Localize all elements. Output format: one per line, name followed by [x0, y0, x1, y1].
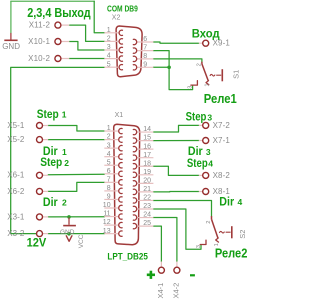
label S1	[231, 70, 240, 79]
label X1	[115, 112, 124, 119]
svg-text:2: 2	[62, 198, 67, 208]
connector pin X6-2	[7, 187, 48, 196]
svg-text:8: 8	[107, 185, 111, 192]
svg-text:Реле2: Реле2	[215, 247, 248, 261]
svg-text:12V: 12V	[27, 238, 47, 250]
svg-text:1: 1	[62, 147, 67, 157]
pin label 1 S1	[204, 83, 210, 86]
svg-text:4: 4	[107, 53, 111, 60]
pin label 3 S2	[196, 245, 202, 248]
pin label 3 S1	[187, 86, 193, 89]
pin label 2 S2	[206, 221, 212, 224]
svg-text:2: 2	[197, 63, 203, 66]
svg-text:GND: GND	[60, 229, 75, 236]
label Step 3	[186, 109, 213, 123]
node junction VCC	[67, 232, 71, 236]
svg-text:5: 5	[107, 159, 111, 166]
svg-text:X7-2: X7-2	[213, 121, 231, 130]
svg-text:3: 3	[107, 44, 111, 51]
switch S1 actuator tilde	[210, 74, 215, 76]
connector pin X7-2	[199, 121, 231, 130]
svg-text:X10-1: X10-1	[28, 37, 50, 46]
switch S2 arm	[212, 219, 219, 238]
power VCC label	[78, 234, 85, 248]
svg-text:Step: Step	[37, 107, 59, 121]
label Реле2	[215, 247, 248, 261]
svg-text:19: 19	[143, 169, 151, 176]
svg-text:X5-1: X5-1	[7, 121, 25, 130]
connector pin X5-1	[7, 121, 48, 130]
svg-text:3: 3	[196, 245, 202, 248]
svg-text:3: 3	[187, 86, 193, 89]
label S2	[238, 230, 247, 239]
connector pin X11-2	[29, 21, 70, 30]
node junction pins7-9	[167, 66, 171, 70]
wire GND net top	[11, 0, 94, 2]
ground GND pin	[10, 33, 12, 40]
svg-text:X10-2: X10-2	[28, 54, 50, 63]
svg-text:X6-2: X6-2	[7, 187, 25, 196]
svg-text:X8-2: X8-2	[213, 171, 231, 180]
ground GND2 bar	[63, 225, 76, 227]
svg-text:5: 5	[107, 61, 111, 68]
minus symbol	[190, 274, 195, 276]
wire X1 pin 21 to X8-1	[153, 191, 198, 193]
label Dir 1	[43, 144, 67, 158]
svg-text:X6-1: X6-1	[7, 171, 25, 180]
svg-text:LPT_DB25: LPT_DB25	[107, 252, 148, 262]
svg-text:21: 21	[143, 186, 151, 193]
wire X5-2 to X1 pin 2	[48, 139, 104, 141]
wire X10-2 to X2 pin 4	[69, 58, 104, 60]
svg-text:6: 6	[143, 36, 147, 43]
wire X11-2 to X2 pin 2	[69, 25, 104, 41]
svg-text:X4-1: X4-1	[156, 283, 165, 299]
svg-text:2: 2	[107, 134, 111, 141]
pin numbers X2 6-9	[143, 36, 147, 68]
label Dir 2	[43, 195, 67, 209]
svg-text:Dir: Dir	[43, 195, 58, 209]
connector pin X8-1	[199, 187, 231, 196]
svg-text:S2: S2	[238, 230, 247, 239]
switch S2 pin3 hook	[200, 240, 206, 244]
svg-text:X11-2: X11-2	[29, 21, 51, 30]
wire X3-2 to X1 pin 13	[48, 233, 104, 235]
wire X5-1 to X1 pin 1	[48, 126, 104, 132]
svg-text:Step: Step	[186, 109, 207, 123]
svg-text:14: 14	[143, 126, 151, 133]
label X2	[112, 15, 121, 22]
svg-text:Step: Step	[187, 156, 208, 170]
connector pin X4-2	[172, 262, 181, 299]
svg-text:1: 1	[107, 125, 111, 132]
svg-text:7: 7	[143, 45, 147, 52]
wire X1 pin 22 to relay2	[153, 200, 211, 216]
svg-text:8: 8	[143, 53, 147, 60]
svg-text:S1: S1	[231, 70, 240, 79]
svg-text:X2: X2	[112, 15, 121, 22]
wire to X2 pin 1	[94, 1, 104, 33]
svg-text:1: 1	[62, 110, 67, 120]
pin numbers X1 1-13	[103, 125, 111, 235]
wire X1 pin 23 to relay2 pin3	[153, 209, 201, 249]
connector pin X9-1	[199, 39, 231, 48]
svg-text:3: 3	[107, 142, 111, 149]
svg-text:23: 23	[143, 203, 151, 210]
svg-text:X3-2: X3-2	[7, 229, 25, 238]
connector pin X6-1	[7, 171, 48, 180]
ground GND bar	[4, 39, 17, 41]
label 12V	[27, 238, 47, 250]
switch S1 arm	[202, 64, 208, 81]
svg-text:VCC: VCC	[78, 234, 85, 248]
wire X1 pin 24 to X4-2	[153, 218, 177, 262]
svg-text:22: 22	[143, 195, 151, 202]
svg-text:4: 4	[208, 159, 213, 169]
label Step 2	[40, 155, 69, 169]
svg-text:11: 11	[103, 211, 110, 218]
wire X3-1 to X1 pin 11	[48, 216, 104, 218]
wire X2 pin 7 down	[153, 51, 192, 90]
wire X1 pin 25 to X4-1	[153, 226, 161, 261]
power VCC arrow	[66, 236, 72, 242]
connector X1 left pin stubs	[104, 128, 122, 236]
svg-text:X3-1: X3-1	[7, 212, 25, 221]
svg-text:3: 3	[207, 112, 212, 122]
connector U-X2 COM DB9 body	[116, 26, 142, 77]
pin label 1 S2	[214, 243, 220, 246]
switch S2 actuator dash	[226, 231, 231, 233]
wire X1 pin 18 to X8-2	[153, 166, 198, 175]
switch S1 actuator dash	[216, 74, 221, 76]
svg-text:4: 4	[238, 197, 243, 207]
label 2,3,4 Выход	[27, 6, 91, 20]
connector pin X4-1	[156, 262, 165, 299]
node junction GND2	[67, 215, 71, 219]
connector pin X3-1	[7, 212, 48, 221]
svg-text:20: 20	[143, 177, 151, 184]
label Вход	[192, 29, 220, 41]
svg-text:2,3,4 Выход: 2,3,4 Выход	[27, 6, 91, 20]
svg-text:Step: Step	[40, 155, 62, 169]
connector X2 left pin stubs	[104, 30, 123, 70]
connector pin X10-2	[28, 54, 69, 63]
svg-text:2: 2	[107, 36, 111, 43]
wire X1 pin 15 to X7-1	[153, 140, 198, 142]
svg-text:6: 6	[107, 168, 111, 175]
svg-text:Вход: Вход	[192, 29, 220, 41]
label Step 1	[37, 107, 67, 121]
svg-text:25: 25	[143, 220, 151, 227]
svg-text:X5-2: X5-2	[7, 135, 25, 144]
switch S2 actuator bar	[231, 226, 233, 238]
wire X2 pin 8 to relay1	[153, 59, 202, 62]
svg-text:15: 15	[143, 135, 151, 142]
label Step 4	[187, 156, 213, 170]
svg-text:GND: GND	[2, 42, 20, 51]
wire X10-1 to X2 pin 3	[69, 42, 104, 51]
connector X1 right pin stubs	[133, 129, 154, 228]
plus symbol	[147, 271, 155, 279]
connector U-X1 LPT DB25 body	[114, 124, 140, 244]
switch S1 pin3 hook	[191, 81, 198, 85]
label Dir 4	[219, 194, 242, 208]
wire X1 pin 14 to X7-2	[153, 125, 198, 132]
label Реле1	[204, 92, 237, 106]
wire X6-2 to X1 pin 7	[48, 182, 104, 191]
pin numbers X1 14-25	[143, 126, 151, 227]
svg-text:13: 13	[103, 228, 111, 235]
wire X2 pin 6 to X9-1	[153, 42, 198, 43]
svg-text:X4-2: X4-2	[172, 283, 181, 299]
connector pin X8-2	[199, 171, 231, 180]
svg-text:1: 1	[204, 83, 210, 86]
svg-text:12: 12	[103, 219, 111, 226]
label LPT_DB25	[107, 252, 148, 262]
svg-text:9: 9	[107, 194, 111, 201]
switch S2 actuator tilde	[219, 231, 224, 233]
svg-text:COM DB9: COM DB9	[107, 4, 138, 13]
svg-text:10: 10	[103, 202, 111, 209]
svg-text:Dir: Dir	[219, 194, 234, 208]
wire X6-1 to X1 pin 6	[48, 173, 104, 176]
svg-text:1: 1	[107, 27, 111, 34]
label COM DB9	[107, 4, 138, 13]
svg-text:2: 2	[206, 221, 212, 224]
switch S1 foot	[206, 81, 209, 85]
connector pin X7-1	[199, 136, 231, 145]
ground GND label	[2, 42, 20, 51]
ground GND2 pin	[68, 218, 70, 225]
svg-text:X1: X1	[115, 112, 124, 119]
wire GND drop	[10, 1, 12, 33]
wire X2 pin 9 to junction	[153, 66, 169, 68]
connector pin X3-2	[7, 229, 48, 238]
switch S2 pin2 stub	[211, 216, 213, 219]
svg-text:17: 17	[143, 152, 151, 159]
pin label 2 S1	[197, 63, 203, 66]
switch S1 actuator bar	[221, 69, 223, 81]
label Dir 3	[188, 144, 211, 158]
connector pin X10-1	[28, 37, 69, 46]
svg-text:16: 16	[143, 143, 151, 150]
svg-text:X7-1: X7-1	[213, 136, 231, 145]
connector X2 right pin stubs	[133, 39, 154, 70]
wire X2 pin5 rail	[11, 67, 105, 233]
svg-text:7: 7	[107, 176, 111, 183]
connector pin X5-2	[7, 135, 48, 144]
svg-text:4: 4	[107, 151, 111, 158]
svg-text:2: 2	[64, 158, 69, 168]
svg-text:18: 18	[143, 160, 151, 167]
svg-text:24: 24	[143, 212, 151, 219]
switch S1 pin2 stub	[201, 62, 203, 64]
ground GND2 label	[60, 229, 75, 236]
svg-text:9: 9	[143, 61, 147, 68]
pin numbers X2 1-5	[107, 27, 111, 68]
svg-text:Реле1: Реле1	[204, 92, 237, 106]
switch S2 foot	[216, 238, 219, 242]
